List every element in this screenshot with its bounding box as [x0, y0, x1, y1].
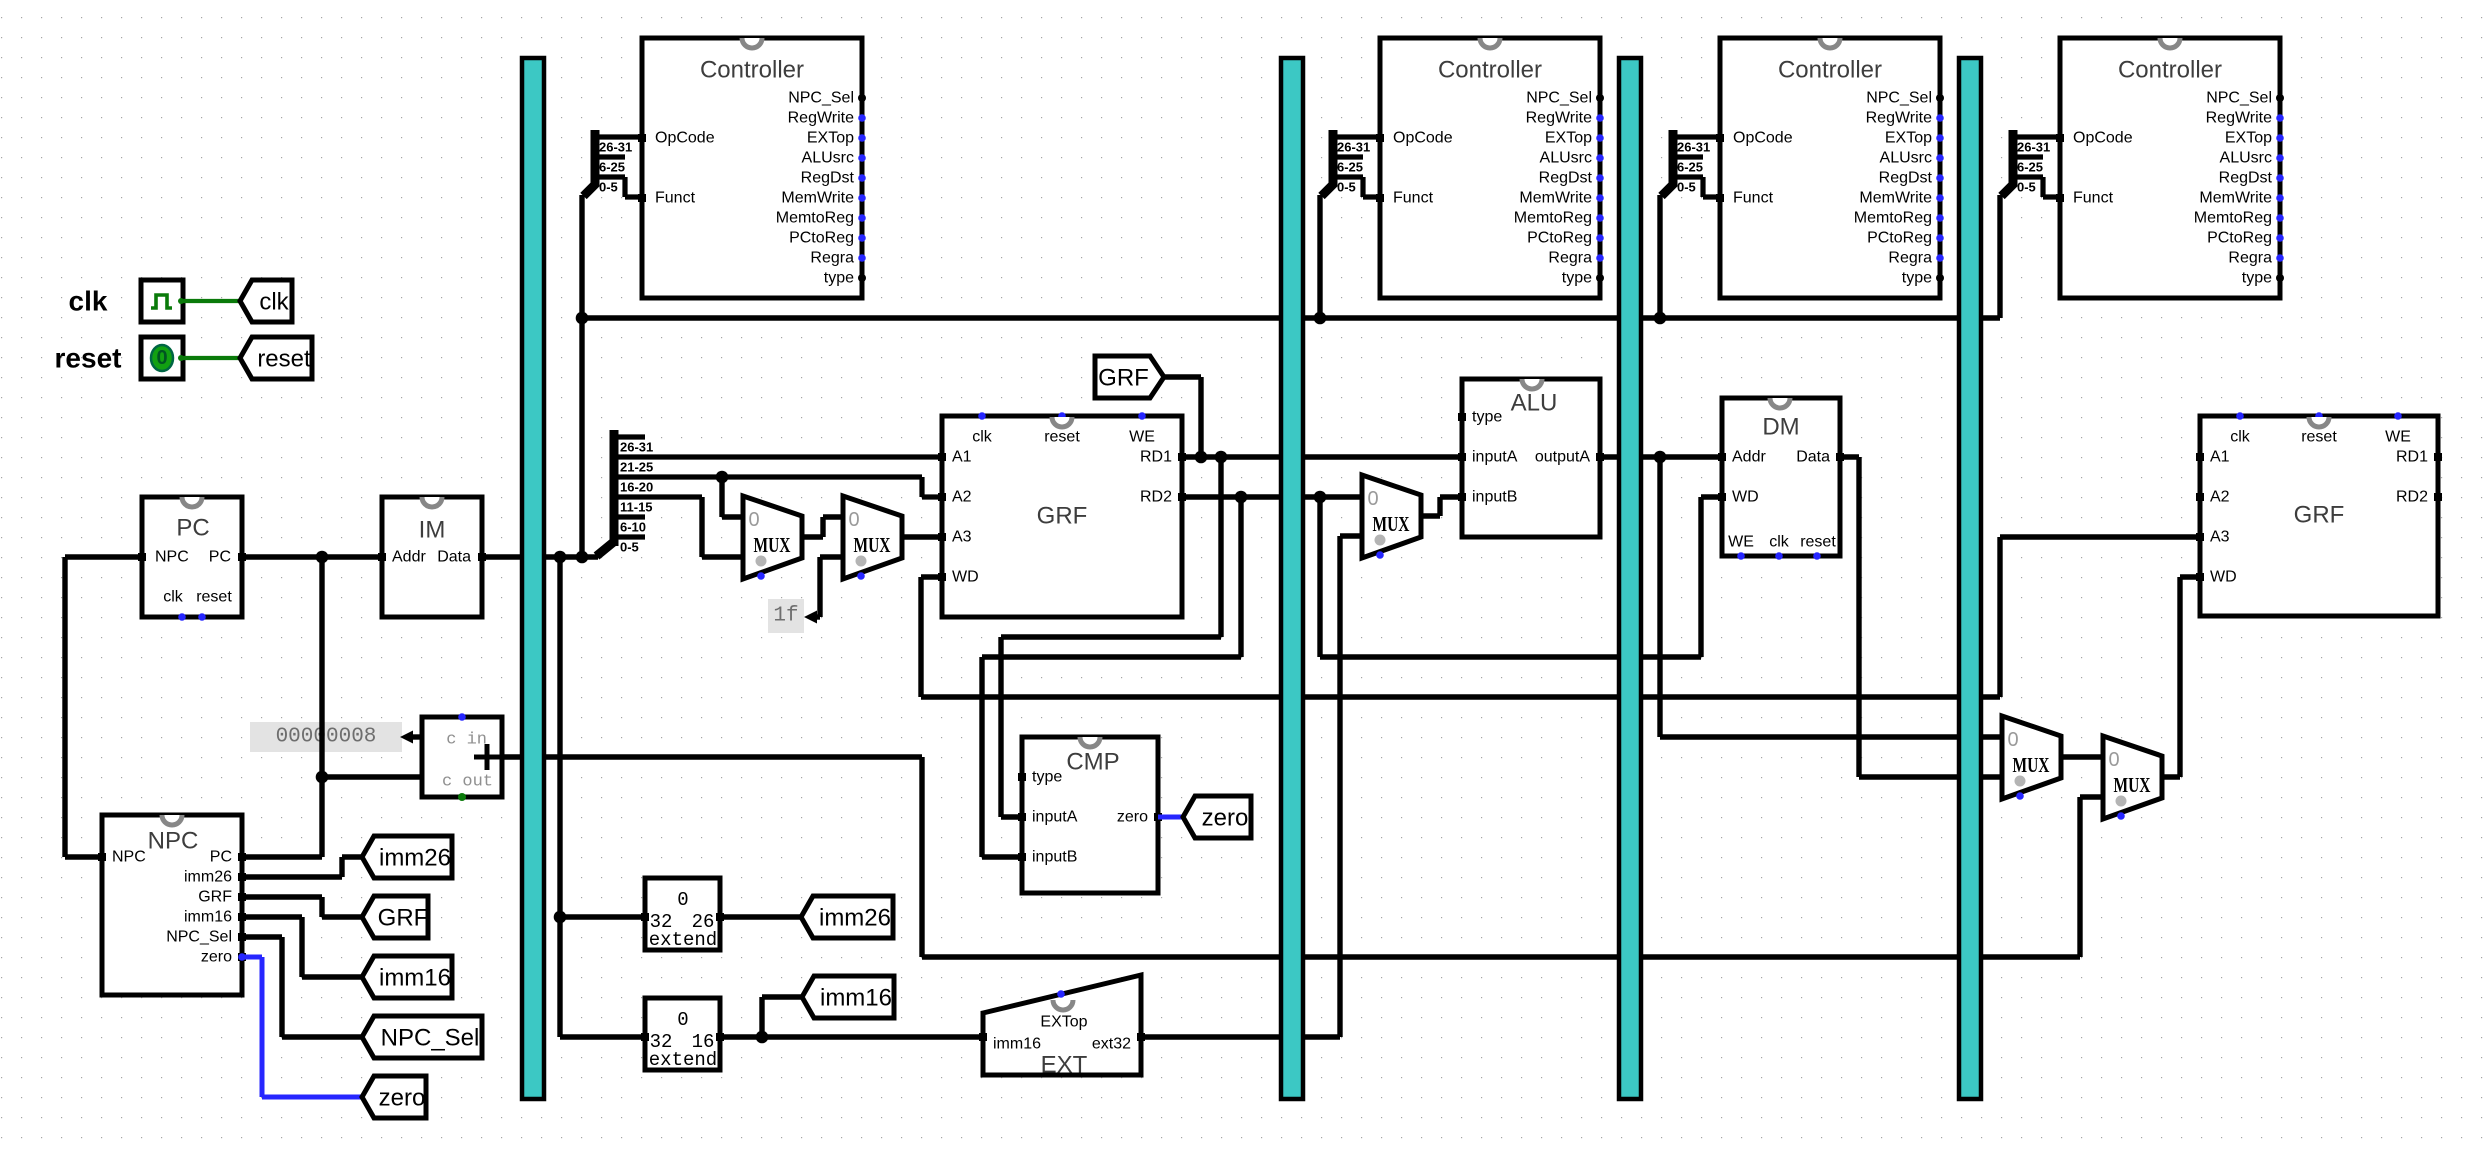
svg-text:6-25: 6-25	[1337, 160, 1363, 175]
svg-text:0-5: 0-5	[620, 540, 639, 555]
svg-text:reset: reset	[1044, 429, 1080, 446]
svg-text:PCtoReg: PCtoReg	[789, 230, 854, 247]
svg-text:IM: IM	[419, 517, 446, 544]
svg-text:NPC_Sel: NPC_Sel	[166, 929, 232, 946]
svg-text:Regra: Regra	[1548, 250, 1592, 267]
svg-text:extend: extend	[649, 929, 717, 951]
svg-text:inputB: inputB	[1032, 849, 1077, 866]
svg-text:PCtoReg: PCtoReg	[2207, 230, 2272, 247]
svg-text:Data: Data	[1796, 449, 1830, 466]
svg-text:Funct: Funct	[2073, 190, 2114, 207]
svg-text:NPC_Sel: NPC_Sel	[788, 90, 854, 107]
svg-text:0: 0	[748, 509, 759, 531]
svg-text:0-5: 0-5	[1677, 180, 1696, 195]
svg-text:MemtoReg: MemtoReg	[776, 210, 854, 227]
svg-text:Addr: Addr	[1732, 449, 1766, 466]
svg-text:PCtoReg: PCtoReg	[1527, 230, 1592, 247]
svg-text:MemWrite: MemWrite	[781, 190, 854, 207]
svg-text:0: 0	[848, 509, 859, 531]
svg-text:OpCode: OpCode	[655, 130, 715, 147]
svg-text:21-25: 21-25	[620, 460, 653, 475]
svg-text:ALUsrc: ALUsrc	[802, 150, 854, 167]
svg-text:WD: WD	[1732, 489, 1759, 506]
svg-text:26-31: 26-31	[620, 440, 653, 455]
svg-text:16-20: 16-20	[620, 480, 653, 495]
svg-text:inputB: inputB	[1472, 489, 1517, 506]
svg-text:type: type	[1902, 270, 1932, 287]
svg-text:EXT: EXT	[1041, 1052, 1088, 1079]
svg-text:OpCode: OpCode	[1733, 130, 1793, 147]
svg-text:0: 0	[1367, 488, 1378, 510]
svg-text:NPC_Sel: NPC_Sel	[1526, 90, 1592, 107]
svg-text:RegWrite: RegWrite	[1526, 110, 1592, 127]
svg-text:PC: PC	[210, 849, 232, 866]
svg-text:6-25: 6-25	[599, 160, 625, 175]
svg-text:WE: WE	[1728, 534, 1754, 551]
svg-text:ALUsrc: ALUsrc	[1540, 150, 1592, 167]
svg-text:ALU: ALU	[1511, 390, 1558, 417]
svg-text:MemtoReg: MemtoReg	[1854, 210, 1932, 227]
svg-text:ext32: ext32	[1092, 1036, 1131, 1053]
svg-text:RD2: RD2	[1140, 489, 1172, 506]
svg-text:WE: WE	[1129, 429, 1155, 446]
svg-text:WE: WE	[2385, 429, 2411, 446]
svg-text:MUX: MUX	[854, 533, 891, 557]
svg-text:GRF: GRF	[378, 905, 429, 932]
svg-text:NPC: NPC	[155, 549, 189, 566]
svg-text:A2: A2	[952, 489, 972, 506]
svg-text:MUX: MUX	[2013, 753, 2050, 777]
svg-text:MemWrite: MemWrite	[2199, 190, 2272, 207]
svg-text:GRF: GRF	[1037, 503, 1088, 530]
svg-text:Controller: Controller	[1778, 57, 1882, 84]
svg-text:type: type	[1472, 409, 1502, 426]
svg-text:0: 0	[2108, 749, 2119, 771]
svg-text:WD: WD	[952, 569, 979, 586]
svg-text:NPC: NPC	[112, 849, 146, 866]
svg-text:clk: clk	[259, 289, 289, 316]
svg-text:ALUsrc: ALUsrc	[1880, 150, 1932, 167]
svg-text:reset: reset	[2301, 429, 2337, 446]
svg-text:MemtoReg: MemtoReg	[2194, 210, 2272, 227]
svg-text:PC: PC	[209, 549, 231, 566]
svg-text:c in: c in	[446, 731, 487, 750]
svg-text:26-31: 26-31	[1677, 140, 1710, 155]
svg-text:RegDst: RegDst	[1879, 170, 1933, 187]
svg-text:0: 0	[677, 889, 688, 911]
svg-text:GRF: GRF	[198, 889, 232, 906]
svg-text:0-5: 0-5	[599, 180, 618, 195]
svg-text:EXTop: EXTop	[1545, 130, 1592, 147]
svg-text:outputA: outputA	[1535, 449, 1590, 466]
svg-text:imm16: imm16	[184, 909, 232, 926]
svg-text:imm16: imm16	[820, 985, 892, 1012]
svg-text:A3: A3	[2210, 529, 2230, 546]
svg-text:type: type	[1032, 769, 1062, 786]
svg-text:RD1: RD1	[1140, 449, 1172, 466]
svg-text:inputA: inputA	[1032, 809, 1078, 826]
svg-text:RegWrite: RegWrite	[788, 110, 854, 127]
svg-text:Regra: Regra	[810, 250, 854, 267]
svg-text:inputA: inputA	[1472, 449, 1518, 466]
svg-text:Data: Data	[437, 549, 471, 566]
svg-text:Controller: Controller	[2118, 57, 2222, 84]
svg-text:RegWrite: RegWrite	[1866, 110, 1932, 127]
svg-text:NPC_Sel: NPC_Sel	[2206, 90, 2272, 107]
svg-text:zero: zero	[201, 949, 232, 966]
svg-text:zero: zero	[1117, 809, 1148, 826]
svg-text:zero: zero	[379, 1085, 426, 1112]
svg-text:CMP: CMP	[1066, 749, 1119, 776]
svg-text:PC: PC	[176, 515, 209, 542]
svg-text:DM: DM	[1762, 414, 1799, 441]
svg-text:imm26: imm26	[379, 845, 451, 872]
svg-text:EXTop: EXTop	[807, 130, 854, 147]
svg-text:zero: zero	[1202, 805, 1249, 832]
svg-text:imm26: imm26	[184, 869, 232, 886]
svg-text:reset: reset	[1800, 534, 1836, 551]
svg-text:RegDst: RegDst	[2219, 170, 2273, 187]
svg-text:Funct: Funct	[1393, 190, 1434, 207]
svg-text:clk: clk	[2230, 429, 2251, 446]
svg-text:RegWrite: RegWrite	[2206, 110, 2272, 127]
svg-text:A2: A2	[2210, 489, 2230, 506]
svg-text:imm26: imm26	[819, 905, 891, 932]
svg-text:reset: reset	[55, 343, 122, 374]
svg-text:MemWrite: MemWrite	[1519, 190, 1592, 207]
svg-text:NPC_Sel: NPC_Sel	[381, 1025, 480, 1052]
svg-text:Funct: Funct	[1733, 190, 1774, 207]
svg-text:A1: A1	[2210, 449, 2230, 466]
svg-text:RD1: RD1	[2396, 449, 2428, 466]
svg-text:RegDst: RegDst	[1539, 170, 1593, 187]
svg-text:imm16: imm16	[993, 1036, 1041, 1053]
svg-text:26-31: 26-31	[2017, 140, 2050, 155]
svg-text:0-5: 0-5	[2017, 180, 2036, 195]
svg-text:0: 0	[2007, 729, 2018, 751]
svg-text:reset: reset	[196, 589, 232, 606]
svg-text:MemtoReg: MemtoReg	[1514, 210, 1592, 227]
svg-text:RD2: RD2	[2396, 489, 2428, 506]
svg-text:0: 0	[677, 1009, 688, 1031]
svg-text:Regra: Regra	[2228, 250, 2272, 267]
svg-text:MUX: MUX	[754, 533, 791, 557]
svg-text:6-10: 6-10	[620, 520, 646, 535]
svg-text:MUX: MUX	[2114, 773, 2151, 797]
svg-text:GRF: GRF	[2294, 502, 2345, 529]
svg-text:26-31: 26-31	[599, 140, 632, 155]
svg-text:0-5: 0-5	[1337, 180, 1356, 195]
svg-text:MemWrite: MemWrite	[1859, 190, 1932, 207]
svg-text:A1: A1	[952, 449, 972, 466]
svg-text:1f: 1f	[773, 605, 798, 628]
svg-text:extend: extend	[649, 1049, 717, 1071]
svg-text:OpCode: OpCode	[2073, 130, 2133, 147]
svg-text:26-31: 26-31	[1337, 140, 1370, 155]
svg-text:clk: clk	[972, 429, 993, 446]
svg-text:OpCode: OpCode	[1393, 130, 1453, 147]
svg-text:ALUsrc: ALUsrc	[2220, 150, 2272, 167]
svg-text:c out: c out	[442, 773, 493, 792]
svg-text:type: type	[2242, 270, 2272, 287]
svg-text:6-25: 6-25	[1677, 160, 1703, 175]
svg-text:reset: reset	[257, 346, 311, 373]
svg-text:Controller: Controller	[1438, 57, 1542, 84]
svg-text:NPC_Sel: NPC_Sel	[1866, 90, 1932, 107]
svg-text:Addr: Addr	[392, 549, 426, 566]
svg-text:11-15: 11-15	[620, 500, 653, 515]
svg-text:00000008: 00000008	[276, 726, 377, 749]
svg-text:A3: A3	[952, 529, 972, 546]
svg-text:WD: WD	[2210, 569, 2237, 586]
svg-text:EXTop: EXTop	[2225, 130, 2272, 147]
svg-text:Funct: Funct	[655, 190, 696, 207]
svg-text:imm16: imm16	[379, 965, 451, 992]
svg-text:GRF: GRF	[1098, 365, 1149, 392]
svg-text:type: type	[1562, 270, 1592, 287]
svg-text:RegDst: RegDst	[801, 170, 855, 187]
svg-text:EXTop: EXTop	[1040, 1014, 1087, 1031]
svg-text:EXTop: EXTop	[1885, 130, 1932, 147]
svg-text:6-25: 6-25	[2017, 160, 2043, 175]
svg-text:Regra: Regra	[1888, 250, 1932, 267]
svg-text:clk: clk	[1769, 534, 1790, 551]
svg-text:Controller: Controller	[700, 57, 804, 84]
svg-text:0: 0	[156, 347, 167, 369]
svg-text:clk: clk	[69, 286, 108, 317]
svg-text:PCtoReg: PCtoReg	[1867, 230, 1932, 247]
svg-text:NPC: NPC	[148, 828, 199, 855]
svg-text:MUX: MUX	[1373, 512, 1410, 536]
svg-text:type: type	[824, 270, 854, 287]
svg-text:clk: clk	[163, 589, 184, 606]
